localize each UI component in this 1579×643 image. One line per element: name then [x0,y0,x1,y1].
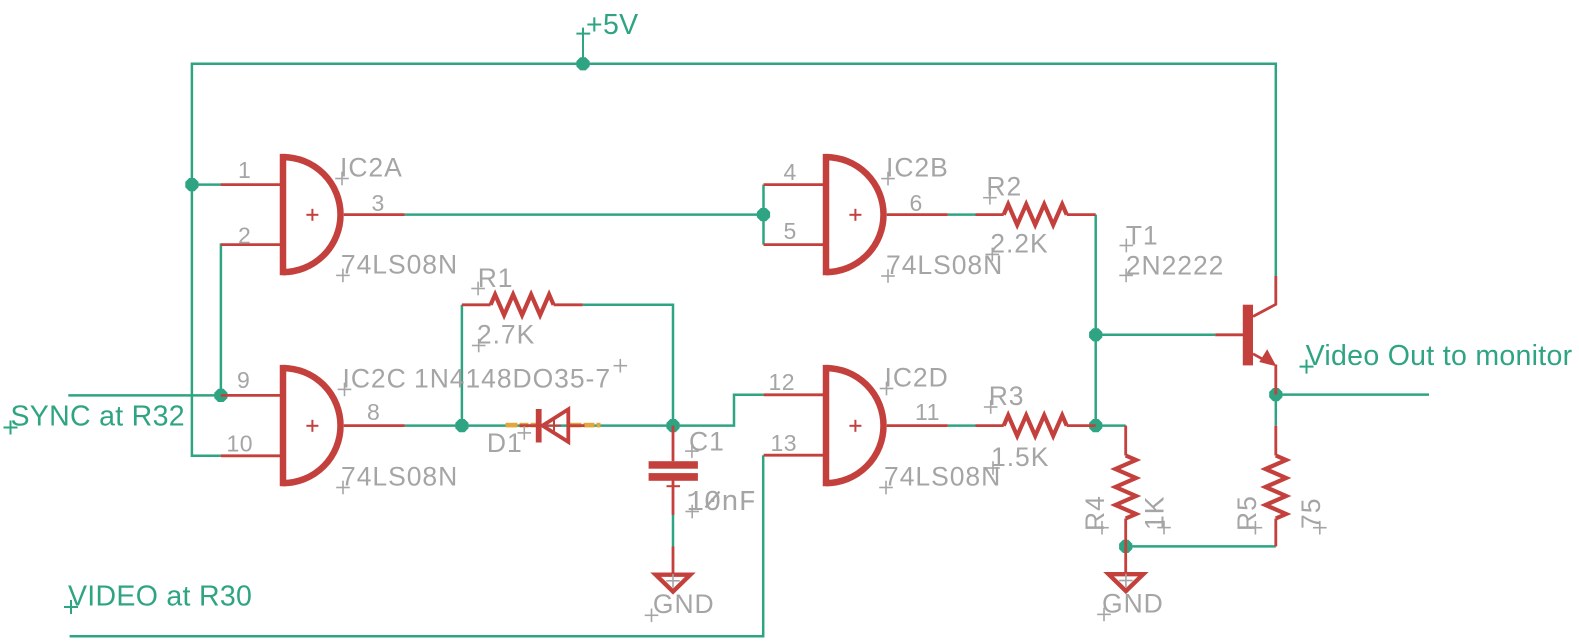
junction D1 left [455,419,468,432]
svg-text:2.7K: 2.7K [477,319,535,349]
junction base [1089,328,1102,341]
wire C1 to GND gap [672,515,675,547]
svg-text:R4: R4 [1080,495,1110,531]
svg-text:75: 75 [1296,498,1326,529]
svg-text:74LS08N: 74LS08N [341,250,458,280]
svg-text:IC2D: IC2D [885,363,949,393]
svg-text:1: 1 [238,157,251,183]
wire emitter to video out [1276,393,1429,396]
resistor R4 [1115,426,1136,547]
label 10nF [685,486,756,519]
wire emitter junction down to R5 [1275,395,1278,426]
node VIDEO label [64,580,252,614]
label 1N4148DO35-7 [414,359,627,394]
label C1 [685,426,725,458]
wire gnd net between R4 and R5 [1126,545,1276,548]
svg-text:+5V: +5V [586,9,638,41]
junction gnd net [1119,540,1132,553]
wire IC2C out through D1 up to IC2D pin12 [405,395,764,426]
node SYNC label [4,401,185,435]
svg-text:IC2C: IC2C [343,363,407,393]
wire SYNC net horizontal [68,394,221,397]
wire IC2B input vertical [762,185,765,245]
label IC2C [338,363,407,396]
label 74LS08N gate C [336,462,458,495]
label 2N2222 [1119,250,1224,282]
svg-text:GND: GND [653,589,715,619]
svg-text:2N2222: 2N2222 [1126,250,1225,280]
junction R3 out [1089,419,1102,432]
label IC2A [335,153,403,186]
label R1 [471,263,513,295]
attribute text yellow right [569,423,601,428]
junction gate A out [757,208,770,221]
svg-text:1N4148DO35-7: 1N4148DO35-7 [414,363,611,393]
label IC2D [880,363,949,396]
svg-text:2: 2 [238,223,251,249]
diode D1 [520,409,585,443]
svg-text:GND: GND [1102,588,1164,618]
transistor T1 [1215,276,1276,395]
junction video out [1269,388,1282,401]
wire +5V rail with drop to pin10 on left and to collector on right [192,64,1276,456]
ground GND left [656,547,691,592]
svg-text:10nF: 10nF [687,486,757,519]
svg-text:3: 3 [372,190,385,216]
svg-text:11: 11 [915,399,940,425]
svg-text:13: 13 [771,430,798,456]
svg-text:12: 12 [769,369,796,395]
label 2.7K [472,319,535,352]
label R5 [1232,495,1262,534]
svg-text:6: 6 [910,190,923,216]
svg-text:9: 9 [237,367,250,393]
wire IC2A output to IC2B inputs [405,213,764,216]
label T1 [1120,220,1159,252]
wire VIDEO net [70,455,764,636]
label 75 [1296,498,1327,535]
AND gate IC2D [764,365,948,486]
wire SYNC vertical up to pin2 [221,245,222,396]
AND gate IC2A [221,154,405,275]
label R4 [1080,495,1110,534]
label 1K [1140,496,1171,535]
svg-text:1K: 1K [1140,496,1170,530]
svg-text:VIDEO at R30: VIDEO at R30 [68,580,252,612]
resistor R2 [976,204,1096,225]
svg-text:D1: D1 [487,428,523,458]
wire junction to R4 top [1096,424,1126,427]
AND gate IC2C [221,365,405,486]
label GND left [645,589,715,622]
wire R1 right return [583,305,673,426]
node Video Out label [1300,340,1573,374]
svg-text:74LS08N: 74LS08N [884,462,1001,492]
svg-text:4: 4 [784,159,797,185]
svg-text:IC2B: IC2B [886,153,949,183]
junction pin1 [185,178,198,191]
junction +5V rail [576,57,589,70]
junction SYNC pin9 [214,389,227,402]
wire base tap [1096,334,1216,337]
ground GND right [1109,546,1144,591]
label R3 [984,381,1025,414]
wire R2 output down to R3 junction [1094,215,1097,426]
svg-text:5: 5 [784,218,797,244]
label GND right [1097,588,1164,621]
resistor R5 [1266,426,1287,547]
svg-text:IC2A: IC2A [340,153,403,183]
resistor R3 [976,415,1096,436]
label 2.2K [986,228,1049,261]
svg-text:R5: R5 [1232,495,1262,531]
label R2 [983,172,1022,205]
svg-text:SYNC at R32: SYNC at R32 [11,401,185,433]
svg-text:74LS08N: 74LS08N [341,462,458,492]
label 1.5K [986,442,1049,475]
wire R1 left vertical [461,305,464,426]
AND gate IC2B [764,154,948,275]
wire pin6 to R2 [948,213,976,216]
svg-text:Video Out to monitor: Video Out to monitor [1306,340,1573,372]
resistor R1 [462,295,583,316]
label 74LS08N gate B [881,250,1003,283]
wire pin1 tap [192,183,222,186]
capacitor C1 [649,426,698,515]
+5V supply symbol [576,9,638,64]
svg-text:10: 10 [227,431,254,457]
wire pin11 to R3 [948,424,976,427]
junction C1 top [666,419,679,432]
label D1 [487,426,531,458]
attribute text yellow left [506,423,539,428]
label 74LS08N gate D [879,462,1001,495]
label 74LS08N gate A [336,250,458,283]
svg-text:8: 8 [367,399,380,425]
label IC2B [881,153,949,186]
